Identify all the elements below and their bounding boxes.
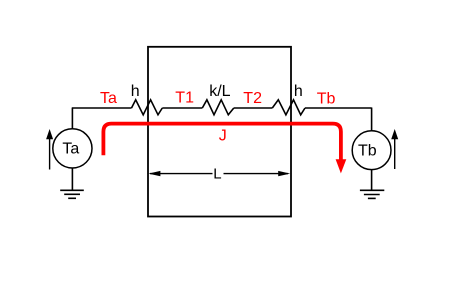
dimension line L (left segment with arrowhead) bbox=[148, 171, 212, 176]
wire: source Ta to ground bbox=[71, 168, 73, 190]
wall rectangle (slab of length L) bbox=[148, 47, 291, 217]
wire: right vertical drop to source Tb bbox=[371, 108, 373, 131]
heat flow arrow J (red path) bbox=[103, 124, 341, 160]
svg-text:h: h bbox=[131, 83, 140, 100]
svg-text:T1: T1 bbox=[175, 90, 194, 107]
resistor h (left convection) bbox=[132, 100, 163, 115]
ground (left) bbox=[60, 190, 84, 198]
dimension line L (right segment with arrowhead) bbox=[224, 171, 291, 176]
source Tb (temperature source circle) bbox=[352, 131, 391, 170]
wire: node Ta to resistor h (left) bbox=[72, 107, 132, 109]
svg-text:L: L bbox=[213, 165, 221, 182]
source Ta (temperature source circle) bbox=[53, 129, 92, 168]
svg-text:k/L: k/L bbox=[209, 83, 230, 100]
wire: resistor to node Tb bbox=[305, 107, 372, 109]
resistor h (right convection) bbox=[272, 100, 305, 115]
svg-text:Ta: Ta bbox=[100, 90, 117, 107]
wire: node T1 segment bbox=[162, 107, 202, 109]
svg-text:h: h bbox=[294, 83, 303, 100]
svg-text:Tb: Tb bbox=[358, 143, 377, 160]
arrow: right current direction (up) bbox=[391, 129, 398, 169]
resistor k/L (conduction) bbox=[202, 100, 234, 115]
wire: node T2 segment bbox=[234, 107, 272, 109]
svg-text:Ta: Ta bbox=[62, 141, 79, 158]
svg-text:J: J bbox=[219, 127, 227, 144]
wire: source Tb to ground bbox=[371, 169, 373, 190]
svg-text:Tb: Tb bbox=[317, 91, 336, 108]
ground (right) bbox=[360, 190, 384, 198]
svg-text:T2: T2 bbox=[243, 90, 262, 107]
heat flow arrowhead (red, down) bbox=[336, 159, 347, 173]
arrow: left current direction (up) bbox=[46, 129, 53, 170]
wire: left vertical drop to source Ta bbox=[71, 108, 73, 129]
